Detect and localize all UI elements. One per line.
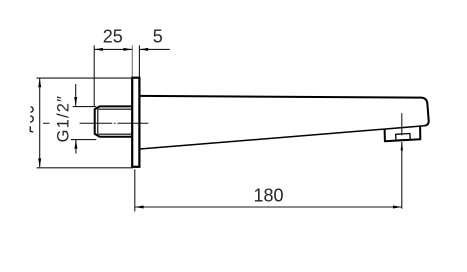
extension line 180-right upper segment xyxy=(401,113,403,135)
dimension line 180 xyxy=(135,206,402,208)
arrow at aerator (up) xyxy=(401,142,403,151)
G1/2 extension line bottom xyxy=(71,139,97,141)
G1/2 arrow top (down) xyxy=(74,97,77,106)
wall flange xyxy=(132,78,139,167)
arrow 5 left xyxy=(139,48,148,51)
dimension line flange height xyxy=(39,79,41,168)
extension line 180-right lower segment xyxy=(401,142,403,209)
nipple G1/2 thread body xyxy=(95,106,132,136)
svg-text:5: 5 xyxy=(153,27,163,47)
arrow 180 right xyxy=(393,206,402,209)
spout top and right outline xyxy=(140,96,429,126)
G1/2 arrow line top xyxy=(75,84,77,106)
extension line flange-top-left xyxy=(37,77,134,79)
nipple chamfer transition line xyxy=(97,107,99,136)
arrow flange-height top xyxy=(38,79,41,88)
extension line flange-right xyxy=(138,45,140,77)
arrow 25 left xyxy=(94,48,103,51)
aerator housing xyxy=(385,127,421,142)
G1/2 extension line top xyxy=(73,106,97,108)
svg-text:G1/2″: G1/2″ xyxy=(55,95,73,143)
extension line flange-bottom-left xyxy=(37,167,134,169)
nipple thread line top xyxy=(99,108,132,110)
svg-text:180: 180 xyxy=(253,186,283,206)
G1/2 arrow bottom (up) xyxy=(74,140,77,149)
arrow 25 right xyxy=(123,48,132,51)
spout body xyxy=(140,96,429,149)
arrow flange-height bottom xyxy=(38,158,41,167)
centerline (dash-dot) xyxy=(43,122,148,124)
extension line 180-left xyxy=(134,169,136,211)
dimension line 25 xyxy=(94,48,132,50)
aerator outlet insert xyxy=(396,134,411,141)
clipped flange-height label glyph fragments xyxy=(30,107,33,132)
dimension tail 5 xyxy=(139,48,169,50)
spout bottom taper edge xyxy=(140,126,425,149)
extension line flange-left (grey) xyxy=(131,45,133,77)
nipple thread line bottom xyxy=(99,133,132,135)
svg-text:25: 25 xyxy=(103,27,123,47)
G1/2 arrow line bottom xyxy=(75,140,77,154)
extension line 25-left xyxy=(93,45,95,106)
arrow 180 left xyxy=(135,206,144,209)
